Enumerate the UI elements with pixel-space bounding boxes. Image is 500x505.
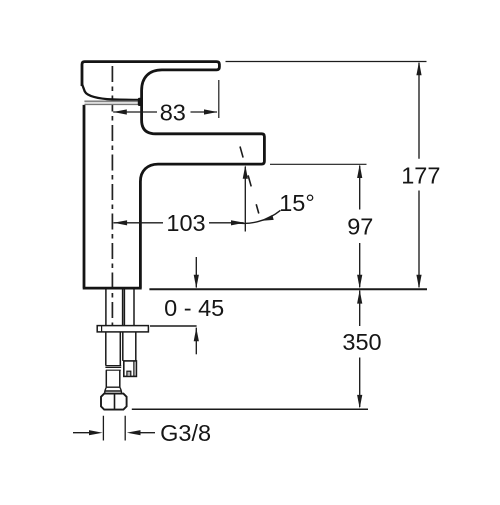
left tube crimp collar — [105, 366, 121, 371]
angle 15: arc — [233, 210, 281, 223]
svg-text:83: 83 — [160, 99, 186, 125]
dimension 103: right arrow — [231, 220, 245, 225]
fitting small square — [127, 371, 131, 376]
dimension 97: vertical lines — [359, 166, 361, 288]
cartridge joint band lines — [84, 101, 141, 104]
dimension 97: down arrow — [357, 275, 362, 289]
dimension G3/8: right arrow — [140, 432, 155, 434]
left supply tube lower — [106, 370, 120, 387]
svg-text:0 - 45: 0 - 45 — [164, 295, 224, 321]
threaded shank below deck — [106, 289, 134, 325]
dimension G3/8: extension lines — [103, 416, 125, 441]
dimension 350: up arrow — [357, 290, 362, 304]
mounting flange washer — [97, 326, 148, 332]
deck / mounting surface line — [149, 288, 427, 290]
angle 15: arc arrow — [261, 215, 274, 221]
dimension 97: extension line from spout — [270, 163, 367, 165]
dimension 177: up arrow — [416, 62, 421, 76]
angle 15: vertical reference line — [244, 167, 246, 232]
hex nut G3/8 — [101, 394, 127, 410]
dimension 0-45: lower reference line — [150, 325, 197, 327]
dimension 103: left arrow — [114, 220, 128, 225]
dimension 177: down arrow — [416, 275, 421, 289]
svg-text:350: 350 — [342, 329, 381, 355]
fitting inner line — [133, 361, 135, 377]
dimension 350: down arrow — [357, 395, 362, 409]
dimension 97: up arrow — [357, 164, 362, 178]
dimension 83: right arrow — [204, 109, 218, 114]
svg-text:103: 103 — [166, 210, 205, 236]
svg-text:177: 177 — [401, 163, 440, 189]
dimension 177: vertical lines — [418, 63, 420, 287]
dimension 83: lines — [113, 111, 217, 113]
dimension 177: top extension line — [226, 61, 427, 63]
angle 15: up arrow at spout outlet — [243, 165, 248, 179]
dimension G3/8: left arrow — [73, 432, 90, 434]
cartridge joint band fill — [85, 101, 141, 104]
svg-text:97: 97 — [347, 213, 373, 239]
left supply tube upper — [106, 332, 121, 366]
right hose end fitting box — [124, 361, 137, 377]
dimension 350: vertical lines — [359, 291, 361, 408]
dimension 0-45: upper line and down arrow — [195, 257, 197, 288]
svg-text:15°: 15° — [279, 190, 315, 216]
lever underside shallow curve — [82, 84, 140, 100]
dimension 103: lines — [114, 222, 244, 224]
dimension 83: extension line — [218, 80, 220, 118]
svg-text:G3/8: G3/8 — [160, 420, 211, 446]
faucet body outline (lever, spout, column) — [82, 62, 264, 289]
taper collar above nut — [105, 387, 122, 393]
dimension 83: left arrow — [113, 109, 127, 114]
angle 15: tilted dashed direction line — [240, 147, 259, 214]
centerline (faucet vertical axis, dash-dot) — [111, 66, 113, 326]
right hose tube — [123, 332, 136, 361]
hose bottom reference line — [132, 408, 368, 410]
dimension 0-45: up arrow and lower line — [194, 328, 199, 342]
flange left end detail line — [101, 326, 103, 332]
hex nut facet line — [114, 394, 116, 410]
joint band right end blob — [138, 98, 143, 106]
